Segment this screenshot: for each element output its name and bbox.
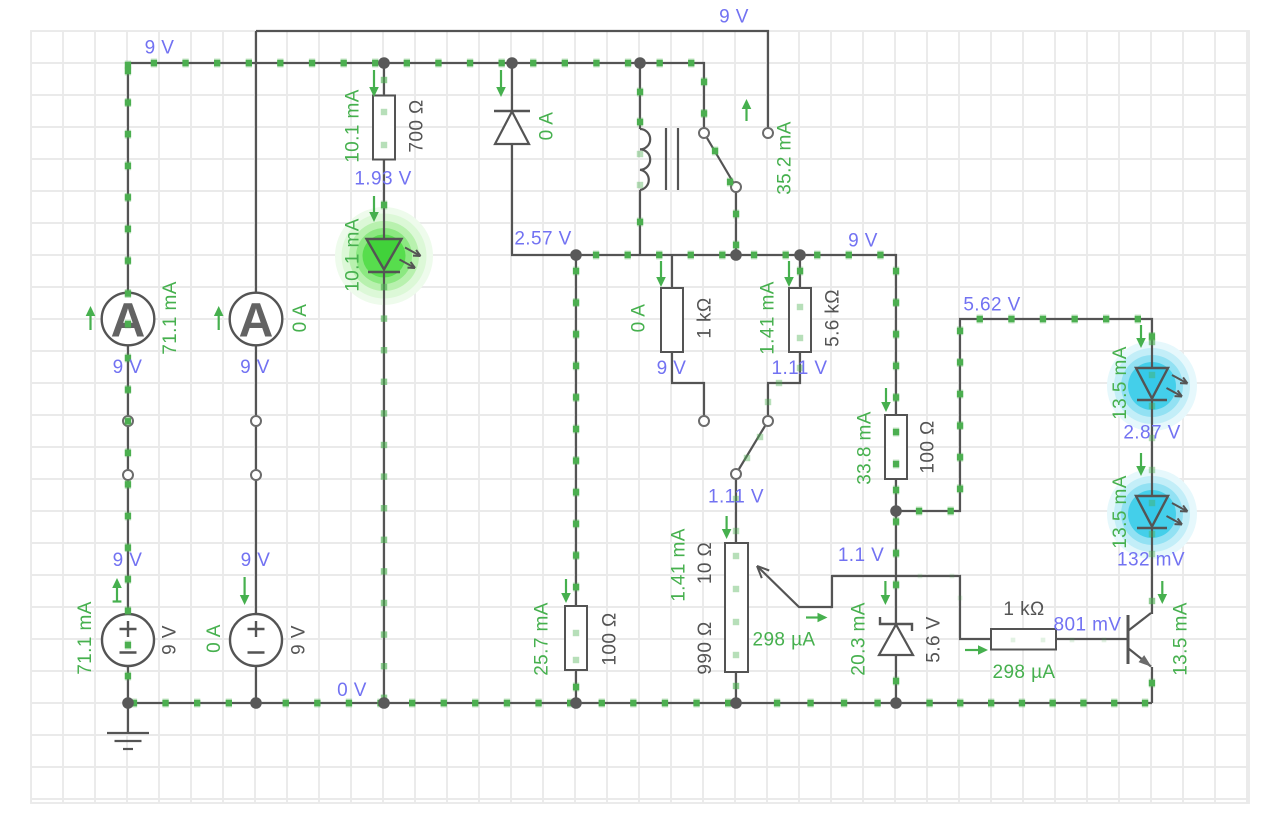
svg-text:13.5 mA: 13.5 mA: [1110, 346, 1131, 420]
svg-text:2.87 V: 2.87 V: [1123, 423, 1180, 444]
svg-text:35.2 mA: 35.2 mA: [774, 121, 795, 195]
svg-text:5.62 V: 5.62 V: [963, 295, 1020, 316]
svg-text:9 V: 9 V: [288, 625, 309, 655]
svg-text:9 V: 9 V: [657, 358, 687, 379]
svg-text:1.11 V: 1.11 V: [708, 487, 764, 508]
svg-text:5.6 V: 5.6 V: [923, 616, 944, 662]
svg-text:9 V: 9 V: [145, 38, 175, 59]
svg-text:A: A: [239, 294, 274, 347]
svg-text:71.1 mA: 71.1 mA: [75, 601, 96, 675]
svg-text:9 V: 9 V: [159, 625, 180, 655]
svg-text:9 V: 9 V: [113, 550, 143, 571]
svg-text:1.41 mA: 1.41 mA: [757, 281, 778, 355]
svg-text:9 V: 9 V: [240, 357, 270, 378]
svg-text:33.8 mA: 33.8 mA: [854, 411, 875, 485]
svg-text:9 V: 9 V: [241, 550, 271, 571]
svg-text:9 V: 9 V: [113, 357, 143, 378]
svg-text:100 Ω: 100 Ω: [599, 612, 620, 665]
svg-text:700 Ω: 700 Ω: [406, 99, 427, 152]
svg-text:25.7 mA: 25.7 mA: [531, 602, 552, 676]
svg-text:10 Ω: 10 Ω: [695, 542, 716, 584]
svg-text:9 V: 9 V: [719, 7, 749, 28]
svg-text:0 V: 0 V: [337, 680, 367, 701]
svg-text:298 µA: 298 µA: [993, 662, 1056, 683]
svg-text:298 µA: 298 µA: [753, 630, 816, 651]
svg-text:5.6 kΩ: 5.6 kΩ: [822, 289, 843, 347]
svg-text:1.11 V: 1.11 V: [772, 358, 828, 379]
svg-text:1.1 V: 1.1 V: [838, 545, 884, 566]
svg-text:0 A: 0 A: [536, 112, 557, 141]
svg-text:71.1 mA: 71.1 mA: [160, 281, 181, 355]
svg-text:2.57 V: 2.57 V: [514, 229, 571, 250]
svg-text:0 A: 0 A: [628, 304, 649, 333]
svg-text:1.93 V: 1.93 V: [354, 169, 411, 190]
svg-text:0 A: 0 A: [290, 304, 311, 333]
svg-text:0 A: 0 A: [204, 624, 225, 653]
svg-text:990 Ω: 990 Ω: [695, 621, 716, 674]
svg-text:100 Ω: 100 Ω: [917, 420, 938, 473]
svg-text:13.5 mA: 13.5 mA: [1170, 602, 1191, 676]
svg-text:1.41 mA: 1.41 mA: [668, 528, 689, 602]
svg-text:20.3 mA: 20.3 mA: [848, 602, 869, 676]
svg-text:10.1 mA: 10.1 mA: [342, 218, 363, 292]
svg-text:1 kΩ: 1 kΩ: [1003, 599, 1044, 620]
svg-text:9 V: 9 V: [848, 231, 878, 252]
svg-text:10.1 mA: 10.1 mA: [342, 89, 363, 163]
svg-text:13.5 mA: 13.5 mA: [1110, 475, 1131, 549]
svg-text:801 mV: 801 mV: [1054, 615, 1122, 636]
svg-text:132 mV: 132 mV: [1117, 550, 1185, 571]
svg-text:1 kΩ: 1 kΩ: [694, 297, 715, 338]
